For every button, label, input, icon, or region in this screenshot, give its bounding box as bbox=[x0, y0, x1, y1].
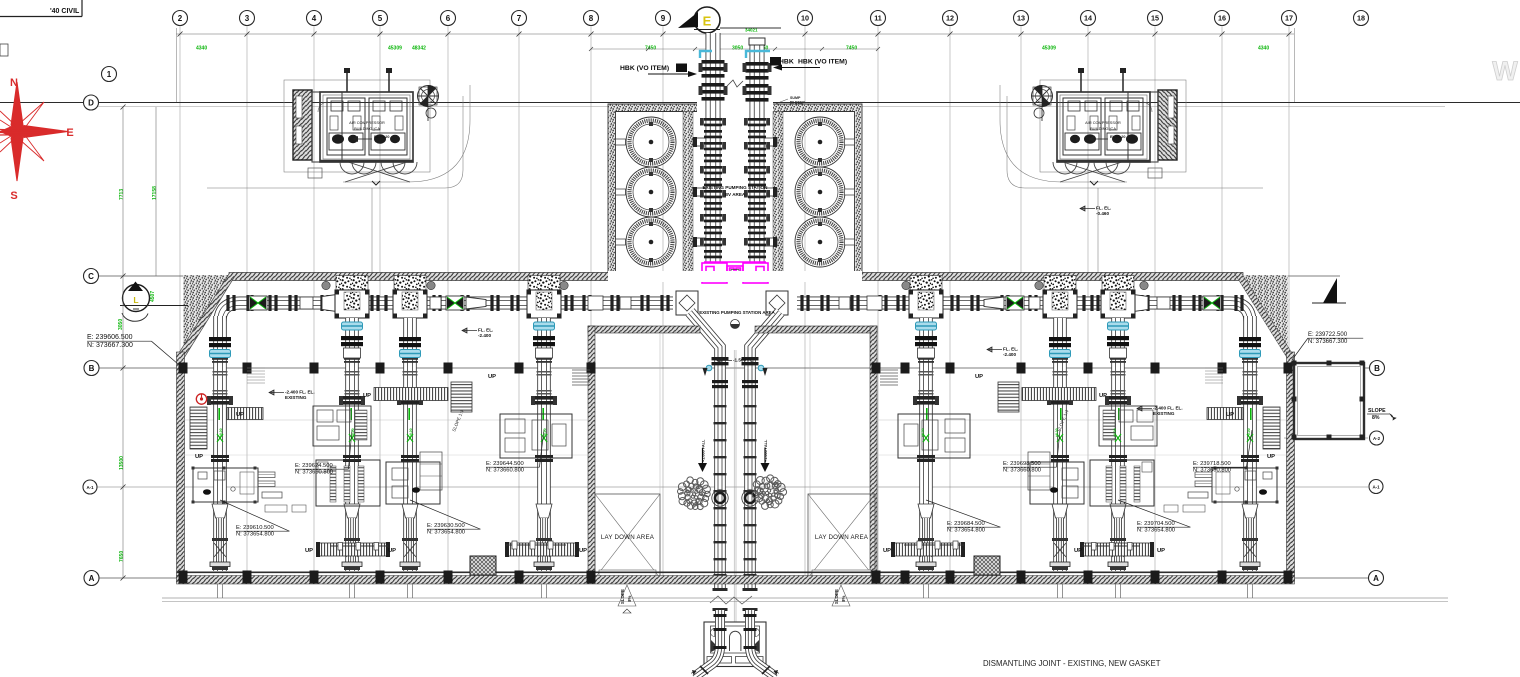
grid bubble 11 bbox=[871, 11, 886, 26]
room train3 bbox=[1030, 462, 1084, 504]
svg-text:E: 239644.500: E: 239644.500 bbox=[486, 461, 524, 467]
svg-text:UP: UP bbox=[883, 548, 891, 554]
svg-text:BV AREA: BV AREA bbox=[725, 192, 746, 197]
tree right bbox=[752, 475, 787, 510]
svg-text:+0.00: +0.00 bbox=[1055, 428, 1059, 437]
svg-text:50 DEEP: 50 DEEP bbox=[790, 101, 805, 105]
grid row line D bbox=[0, 102, 1520, 104]
header tee at 352 bbox=[336, 276, 368, 291]
stair train1 left bbox=[1263, 407, 1280, 449]
pipe stubs below wall bbox=[218, 584, 223, 598]
svg-text:UP: UP bbox=[236, 412, 244, 418]
svg-text:UP: UP bbox=[1157, 548, 1165, 554]
svg-text:HBK: HBK bbox=[779, 59, 794, 66]
floor elevation label bbox=[717, 358, 722, 363]
header small valve bodies bbox=[1157, 297, 1170, 309]
stair at train3 right bbox=[451, 382, 472, 412]
svg-text:E: E bbox=[66, 127, 73, 139]
grid bubble 5 bbox=[373, 11, 388, 26]
svg-text:6: 6 bbox=[446, 14, 451, 23]
svg-text:4: 4 bbox=[312, 14, 317, 23]
left edge tick box bbox=[0, 44, 8, 56]
svg-text:A-2: A-2 bbox=[1373, 436, 1381, 441]
header small valve bodies bbox=[300, 297, 313, 309]
grid bubble 3 bbox=[240, 11, 255, 26]
pump trains right half (mirrored) bbox=[797, 276, 1280, 599]
svg-text:N: 373667.300: N: 373667.300 bbox=[1308, 339, 1348, 345]
crane marker L left bbox=[123, 285, 150, 312]
center top dimension line bbox=[591, 48, 878, 50]
header gray posts bbox=[322, 281, 330, 289]
slope wedge marker right bbox=[1312, 302, 1346, 304]
svg-text:-2.400 FL. EL.: -2.400 FL. EL. bbox=[1153, 406, 1183, 411]
title block corner bbox=[0, 16, 82, 18]
svg-text:E: 239606.500: E: 239606.500 bbox=[87, 334, 133, 341]
left dimension lines bbox=[122, 107, 124, 578]
svg-text:SLOPE: SLOPE bbox=[1368, 408, 1386, 414]
svg-text:3: 3 bbox=[245, 14, 250, 23]
ladder train1 right UP bbox=[227, 408, 263, 420]
header reducer 2 bbox=[984, 297, 1004, 309]
grid bubble 17 bbox=[1282, 11, 1297, 26]
inner hall left wall bbox=[588, 326, 595, 578]
svg-text:N: N bbox=[10, 77, 18, 89]
svg-text:17: 17 bbox=[1285, 14, 1293, 23]
pipe stubs below wall bbox=[1248, 584, 1253, 598]
room train1 bbox=[193, 468, 258, 502]
building diagonal corner left bbox=[183, 275, 229, 350]
svg-text:EXISTING: EXISTING bbox=[285, 395, 307, 400]
floor elevation label bbox=[1137, 406, 1142, 411]
slope marker right bbox=[832, 585, 850, 606]
svg-text:B: B bbox=[1374, 364, 1380, 373]
small circle symbol bbox=[731, 320, 740, 329]
svg-text:BUILDING |CA: BUILDING |CA bbox=[1090, 126, 1116, 131]
misc long bolts bbox=[1082, 545, 1140, 547]
header tee at 410 bbox=[394, 276, 426, 291]
grid bubble 18 bbox=[1354, 11, 1369, 26]
building bottom wall bbox=[177, 571, 1295, 573]
header reducer 1 bbox=[322, 294, 340, 312]
grid column lines bbox=[180, 26, 1289, 581]
pump train riser at 410 bbox=[1053, 318, 1067, 571]
grid bubble 9 bbox=[656, 11, 671, 26]
svg-text:4507: 4507 bbox=[150, 291, 156, 302]
grid bubble 8 bbox=[584, 11, 599, 26]
svg-text:N: 373660.800: N: 373660.800 bbox=[1003, 468, 1041, 474]
building right wall bbox=[1287, 352, 1295, 582]
svg-text:7713: 7713 bbox=[119, 189, 125, 200]
svg-text:C: C bbox=[88, 272, 94, 281]
svg-text:W: W bbox=[1492, 56, 1518, 86]
header reducer 1 bbox=[1130, 294, 1148, 312]
grid bubble 12 bbox=[943, 11, 958, 26]
svg-text:A: A bbox=[1373, 574, 1379, 583]
outlet valve chamber bbox=[704, 622, 766, 667]
room train4 bbox=[898, 414, 970, 458]
pipe break near bottom bbox=[710, 596, 752, 604]
lay down area right bbox=[808, 494, 875, 578]
pump train riser at 220 bbox=[213, 316, 227, 571]
stair train1 left bbox=[190, 407, 207, 449]
svg-text:-0.460: -0.460 bbox=[1096, 211, 1109, 216]
svg-text:8%: 8% bbox=[841, 596, 846, 602]
svg-text:2: 2 bbox=[178, 14, 183, 23]
racks right of room1 bbox=[1195, 472, 1212, 478]
svg-text:N: 373667.300: N: 373667.300 bbox=[87, 342, 133, 349]
grid bubble C bbox=[84, 269, 99, 284]
svg-text:B: B bbox=[89, 364, 95, 373]
svg-text:-2.400: -2.400 bbox=[478, 333, 491, 338]
room train1 bbox=[1212, 468, 1277, 502]
svg-text:UP: UP bbox=[1267, 454, 1275, 460]
svg-text:3050: 3050 bbox=[732, 46, 743, 52]
svg-text:N: 373660.800: N: 373660.800 bbox=[295, 470, 333, 476]
pipe break symbol bbox=[727, 80, 743, 87]
tree left bbox=[678, 477, 711, 510]
grid bubble 4 bbox=[307, 11, 322, 26]
svg-text:'40 CIVIL: '40 CIVIL bbox=[50, 8, 80, 15]
svg-text:UP: UP bbox=[579, 548, 587, 554]
grid row line C bbox=[98, 275, 1340, 277]
pump train riser at 410 bbox=[403, 318, 417, 571]
inlet pipe flanges bbox=[702, 60, 725, 64]
svg-text:18: 18 bbox=[1357, 14, 1365, 23]
svg-text:10: 10 bbox=[801, 14, 809, 23]
pump train riser at 352 bbox=[345, 318, 359, 571]
grid row line A-2 (right) bbox=[1284, 437, 1368, 439]
svg-text:-2.400: -2.400 bbox=[1003, 352, 1016, 357]
station clarifier circles bbox=[626, 117, 676, 167]
ladder train1 right UP bbox=[1207, 408, 1243, 420]
grid bubble A bbox=[1369, 571, 1384, 586]
svg-text:+0.00: +0.00 bbox=[409, 428, 413, 437]
racks right of room1 bbox=[258, 472, 275, 478]
grid bubble 1 bbox=[102, 67, 117, 82]
grid row line A bbox=[99, 577, 1368, 579]
svg-text:EL.+3.20: EL.+3.20 bbox=[374, 135, 390, 139]
misc long bolts bbox=[330, 545, 388, 547]
right coordinate label leader bbox=[1292, 338, 1308, 360]
inner hall right wall bbox=[870, 326, 877, 578]
svg-text:FL. EL.: FL. EL. bbox=[1003, 347, 1018, 352]
header reducer 2 bbox=[466, 297, 486, 309]
svg-text:12: 12 bbox=[946, 14, 954, 23]
svg-text:+0.00: +0.00 bbox=[921, 428, 925, 437]
long ladder bottom 1 bbox=[318, 543, 388, 556]
svg-text:9: 9 bbox=[661, 14, 666, 23]
svg-text:EXISTING PUMPING STATION: EXISTING PUMPING STATION bbox=[703, 185, 769, 190]
cyan elbow marks top bbox=[700, 51, 712, 58]
grate box near bottom wall bbox=[974, 556, 1000, 575]
pump train riser at 220 bbox=[1243, 316, 1257, 571]
grid bubble A bbox=[84, 571, 99, 586]
floor line below building bbox=[162, 597, 1448, 599]
svg-text:11: 11 bbox=[874, 14, 882, 23]
svg-text:48342: 48342 bbox=[412, 46, 426, 52]
svg-text:N: 373654.800: N: 373654.800 bbox=[236, 532, 274, 538]
air compressor building left bbox=[207, 68, 470, 272]
louvre lines near hall wall bbox=[880, 369, 898, 371]
floor elevation label bbox=[1080, 206, 1085, 211]
grid bubble 10 bbox=[798, 11, 813, 26]
building left wall bbox=[177, 352, 185, 582]
svg-text:+0.00: +0.00 bbox=[1247, 428, 1251, 437]
svg-text:E: E bbox=[703, 14, 712, 29]
grid bubble 2 bbox=[173, 11, 188, 26]
svg-text:17158: 17158 bbox=[152, 186, 158, 200]
top dimension line bbox=[176, 33, 1294, 35]
svg-text:13500: 13500 bbox=[119, 456, 125, 470]
air compressor building right (mirrored) bbox=[1000, 68, 1263, 272]
svg-text:A-1: A-1 bbox=[1372, 485, 1380, 490]
bottom wall pilasters bbox=[179, 571, 188, 584]
svg-text:+0.00: +0.00 bbox=[351, 428, 355, 437]
center downpipe right bbox=[750, 312, 780, 588]
svg-text:FL. EL.: FL. EL. bbox=[478, 328, 493, 333]
svg-text:EXISTING PUMPING STATION AREA: EXISTING PUMPING STATION AREA bbox=[699, 310, 775, 315]
ladder between trains 2-3 bbox=[1022, 388, 1096, 401]
magenta dismantling joints bbox=[702, 262, 768, 283]
building top wall bbox=[229, 273, 1243, 281]
svg-text:SLOPE: SLOPE bbox=[620, 589, 625, 604]
svg-text:D: D bbox=[88, 98, 94, 107]
grid bubble 7 bbox=[512, 11, 527, 26]
svg-text:UP: UP bbox=[195, 454, 203, 460]
svg-text:AIR COMPRESSOR: AIR COMPRESSOR bbox=[349, 120, 385, 125]
inner hall top wall right segment bbox=[755, 326, 877, 333]
slope marker left bbox=[618, 585, 636, 606]
svg-text:S: S bbox=[10, 190, 17, 202]
downpipe valve donuts bbox=[715, 493, 725, 503]
center axis line bbox=[733, 350, 735, 622]
inner hall top wall left segment bbox=[588, 326, 700, 333]
grid bubble A-1 right bbox=[1369, 480, 1383, 494]
header flanges bbox=[1240, 295, 1243, 311]
svg-text:LAY DOWN AREA: LAY DOWN AREA bbox=[815, 534, 869, 541]
svg-text:UP: UP bbox=[388, 548, 396, 554]
svg-text:UP: UP bbox=[363, 393, 371, 399]
svg-text:UP: UP bbox=[975, 374, 983, 380]
floor elevation label bbox=[269, 390, 274, 395]
svg-text:4340: 4340 bbox=[196, 46, 207, 52]
station inner wall strips bbox=[683, 112, 693, 272]
svg-text:16: 16 bbox=[1218, 14, 1226, 23]
lay down area left bbox=[595, 494, 660, 578]
station gallery pipes bbox=[706, 111, 721, 262]
header tee at 544 bbox=[910, 276, 942, 291]
grid bubble A-2 right bbox=[1370, 431, 1384, 445]
svg-text:E: 239624.500: E: 239624.500 bbox=[295, 463, 333, 469]
downpipe lower flanges bbox=[714, 405, 727, 407]
svg-text:FL. EL.: FL. EL. bbox=[1096, 206, 1111, 211]
svg-text:8: 8 bbox=[589, 14, 594, 23]
grid bubble 16 bbox=[1215, 11, 1230, 26]
floor elevation label bbox=[987, 347, 992, 352]
svg-text:+0.00: +0.00 bbox=[219, 428, 223, 437]
right annex room bbox=[1294, 363, 1364, 439]
svg-text:4340: 4340 bbox=[1258, 46, 1269, 52]
svg-text:N: 373654.800: N: 373654.800 bbox=[947, 528, 985, 534]
svg-text:E: 239630.500: E: 239630.500 bbox=[427, 523, 465, 529]
grid row line B bbox=[99, 367, 1369, 369]
svg-text:+0.00: +0.00 bbox=[543, 428, 547, 437]
svg-text:45309: 45309 bbox=[1042, 46, 1056, 52]
long ladder bottom 2 bbox=[507, 543, 577, 556]
grid bubble 6 bbox=[441, 11, 456, 26]
grid bubble B bbox=[1370, 361, 1385, 376]
room train2 bbox=[316, 460, 380, 506]
header pipe bbox=[797, 303, 1250, 322]
north arrow marker E bbox=[694, 7, 720, 33]
grid bubble 13 bbox=[1014, 11, 1029, 26]
svg-text:8%: 8% bbox=[1372, 415, 1380, 421]
svg-text:UP: UP bbox=[1099, 393, 1107, 399]
svg-text:+0.00: +0.00 bbox=[1113, 428, 1117, 437]
svg-text:UP: UP bbox=[488, 374, 496, 380]
header pipe bbox=[220, 303, 673, 322]
svg-text:N: 373654.800: N: 373654.800 bbox=[1137, 528, 1175, 534]
room train4 bbox=[500, 414, 572, 458]
pump trains left half bbox=[190, 276, 673, 599]
svg-text:14: 14 bbox=[1084, 14, 1092, 23]
pump train riser at 544 bbox=[919, 318, 933, 571]
inner hall light lines bbox=[659, 333, 661, 578]
svg-text:HBK (VO ITEM): HBK (VO ITEM) bbox=[620, 65, 669, 72]
svg-text:SLOPE: SLOPE bbox=[834, 589, 839, 604]
grid row line A-1 bbox=[97, 486, 1368, 488]
svg-text:-1.500 FL.: -1.500 FL. bbox=[733, 358, 754, 363]
compass rose bbox=[0, 77, 74, 202]
svg-text:DISMANTLING JOINT - EXISTING,: DISMANTLING JOINT - EXISTING, NEW GASKET bbox=[983, 659, 1161, 668]
svg-text:13: 13 bbox=[1017, 14, 1025, 23]
header gray posts bbox=[1140, 281, 1148, 289]
interior floor line bbox=[183, 419, 588, 421]
svg-text:E: 239704.500: E: 239704.500 bbox=[1137, 521, 1175, 527]
svg-text:7: 7 bbox=[517, 14, 522, 23]
building diagonal corner right bbox=[1242, 275, 1288, 350]
svg-text:5: 5 bbox=[378, 14, 383, 23]
svg-text:45309: 45309 bbox=[388, 46, 402, 52]
svg-text:HBK (VO ITEM): HBK (VO ITEM) bbox=[798, 59, 847, 66]
elbow flange box left bbox=[676, 291, 698, 315]
svg-text:UP: UP bbox=[1226, 412, 1234, 418]
header tee at 410 bbox=[1044, 276, 1076, 291]
shafts row under room4 bbox=[506, 544, 566, 546]
svg-text:BUILDING |CA: BUILDING |CA bbox=[354, 126, 380, 131]
downpipe valve clusters bbox=[712, 357, 729, 360]
svg-text:E: 239684.500: E: 239684.500 bbox=[947, 521, 985, 527]
floor elevation label bbox=[462, 328, 467, 333]
svg-text:1: 1 bbox=[107, 70, 112, 79]
svg-text:LAY DOWN AREA: LAY DOWN AREA bbox=[601, 534, 655, 541]
elbow flange box right bbox=[766, 291, 788, 315]
svg-text:7450: 7450 bbox=[846, 46, 857, 52]
svg-text:E: 239718.500: E: 239718.500 bbox=[1193, 461, 1231, 467]
header tee at 544 bbox=[528, 276, 560, 291]
chamber pipes bbox=[694, 610, 720, 677]
ladder between trains 2-3 bbox=[374, 388, 448, 401]
stair at train3 right bbox=[998, 382, 1019, 412]
upper room between trains 2-3 bbox=[313, 406, 371, 446]
svg-text:N: 373660.800: N: 373660.800 bbox=[486, 468, 524, 474]
grid bubble D bbox=[84, 95, 99, 110]
header flanges bbox=[226, 295, 229, 311]
room train3 bbox=[386, 462, 440, 504]
svg-text:AIR COMPRESSOR: AIR COMPRESSOR bbox=[1085, 120, 1121, 125]
svg-text:E: 239610.500: E: 239610.500 bbox=[236, 525, 274, 531]
existing pumping station box bbox=[608, 104, 862, 279]
station inlet pipe right bbox=[750, 44, 765, 111]
svg-text:E: 239722.500: E: 239722.500 bbox=[1308, 332, 1348, 338]
svg-text:N: 373660.800: N: 373660.800 bbox=[1193, 468, 1231, 474]
grate box near bottom wall bbox=[470, 556, 496, 575]
svg-text:SUMP: SUMP bbox=[790, 96, 801, 100]
svg-text:A: A bbox=[89, 574, 95, 583]
pump train riser at 352 bbox=[1111, 318, 1125, 571]
svg-text:8%: 8% bbox=[627, 596, 632, 602]
room train2 bbox=[1090, 460, 1154, 506]
louvre lines near hall wall bbox=[572, 369, 590, 371]
svg-text:UP: UP bbox=[1074, 548, 1082, 554]
upper room between trains 2-3 bbox=[1099, 406, 1157, 446]
svg-text:E: 239698.500: E: 239698.500 bbox=[1003, 461, 1041, 467]
center downpipe left bbox=[690, 312, 720, 588]
header valve 1 bbox=[249, 296, 267, 310]
svg-text:L: L bbox=[133, 295, 138, 305]
long ladder bottom 2 bbox=[893, 543, 963, 556]
red circle marker bbox=[196, 394, 206, 404]
grid bubble B bbox=[84, 361, 99, 376]
pump train riser at 544 bbox=[537, 318, 551, 571]
svg-text:A-1: A-1 bbox=[86, 485, 94, 490]
header valve 1 bbox=[1203, 296, 1221, 310]
svg-text:EL.+3.20: EL.+3.20 bbox=[1110, 135, 1126, 139]
svg-text:34021: 34021 bbox=[745, 28, 758, 33]
header tee at 352 bbox=[1102, 276, 1134, 291]
B line pilasters bbox=[179, 363, 188, 374]
svg-text:EXISTING: EXISTING bbox=[1153, 411, 1175, 416]
svg-text:7650: 7650 bbox=[119, 551, 125, 562]
long ladder bottom 1 bbox=[1082, 543, 1152, 556]
svg-text:N: 373654.800: N: 373654.800 bbox=[427, 530, 465, 536]
shafts row under room4 bbox=[904, 544, 964, 546]
station inlet pipe left bbox=[706, 33, 721, 111]
svg-text:UP: UP bbox=[305, 548, 313, 554]
grid bubble 15 bbox=[1148, 11, 1163, 26]
grid bubble 14 bbox=[1081, 11, 1096, 26]
svg-text:-2.400 FL. EL.: -2.400 FL. EL. bbox=[285, 390, 315, 395]
grid bubble A-1 left bbox=[83, 480, 97, 494]
flow arrows bbox=[703, 368, 708, 376]
svg-text:15: 15 bbox=[1151, 14, 1159, 23]
